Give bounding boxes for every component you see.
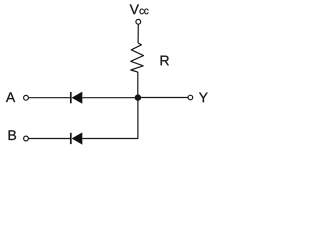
diode D1 (input A, cathode at A side) (71, 92, 83, 104)
input B label (9, 130, 16, 140)
node: output junction (solder dot) (135, 94, 141, 100)
wire Vcc terminal to resistor R top (137, 24, 139, 43)
output Y label (199, 93, 208, 103)
value label R (161, 56, 169, 66)
resistor R (131, 43, 144, 72)
output Y terminal (open circle) (188, 95, 193, 100)
net Vcc label (130, 4, 149, 14)
wire input A terminal to diode D1 cathode (29, 97, 71, 99)
wire diode D2 anode to B branch corner (82, 138, 138, 140)
input A label (6, 92, 15, 102)
wire input B terminal to diode D2 cathode (29, 138, 71, 140)
Vcc terminal (open circle) (136, 19, 141, 24)
wire diode D1 anode to output node (82, 97, 138, 99)
input A terminal (open circle) (24, 95, 29, 100)
wire output node down to B branch corner (137, 98, 139, 139)
input B terminal (open circle) (24, 136, 29, 141)
wire output node to output Y terminal (138, 97, 188, 99)
diode D2 (input B, cathode at B side) (71, 132, 83, 144)
wire resistor R bottom to output node (137, 72, 139, 98)
